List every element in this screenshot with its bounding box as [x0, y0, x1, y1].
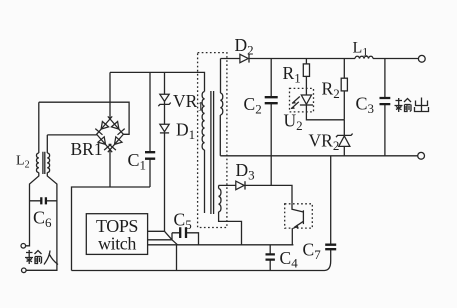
- svg-text:witch: witch: [98, 234, 136, 254]
- svg-text:BR1: BR1: [71, 139, 103, 159]
